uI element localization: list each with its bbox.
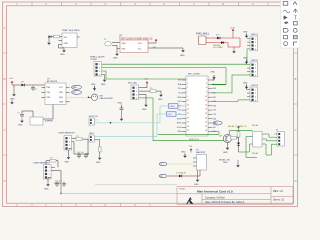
green wire data down — [139, 98, 224, 141]
wire — [61, 193, 177, 195]
svg-text:GND: GND — [223, 162, 228, 164]
svg-text:5: 5 — [187, 87, 188, 89]
relay K1 body — [253, 132, 263, 148]
green wires to output connector — [239, 134, 275, 158]
capacitor Cb — [84, 153, 88, 158]
svg-text:GPIO1: GPIO1 — [251, 34, 258, 36]
svg-text:VO-: VO- — [138, 49, 142, 51]
ground — [181, 48, 185, 52]
svg-text:22: 22 — [205, 122, 207, 124]
svg-text:12: 12 — [205, 100, 207, 102]
junction node — [87, 153, 88, 154]
junction node — [110, 122, 112, 124]
svg-text:2n2 2n2: 2n2 2n2 — [77, 152, 84, 154]
svg-text:RELAY: RELAY — [252, 152, 259, 155]
wire under IC — [58, 45, 60, 49]
svg-text:GND: GND — [96, 162, 101, 164]
svg-text:B: B — [4, 77, 6, 81]
svg-text:GND: GND — [180, 55, 185, 57]
power flag +12V — [232, 29, 235, 33]
svg-text:26: 26 — [205, 130, 207, 132]
svg-text:LIGHTSENSOR?: LIGHTSENSOR? — [33, 162, 51, 164]
header J6 — [131, 85, 139, 100]
collector wire to relay — [228, 131, 230, 135]
LED D — [48, 35, 51, 38]
svg-text:GND: GND — [181, 151, 186, 153]
svg-text:LIGHTSENSOR?: LIGHTSENSOR? — [58, 133, 76, 135]
gnd pin4 — [102, 73, 105, 75]
capacitor Cd — [62, 182, 66, 187]
+5V flag — [11, 81, 14, 85]
svg-text:GND: GND — [142, 109, 147, 111]
wire down from U3 — [52, 105, 54, 118]
svg-text:PB2: PB2 — [47, 97, 51, 99]
ground — [10, 100, 14, 104]
transistor Q1 — [223, 134, 231, 142]
wire with diode — [168, 175, 179, 177]
ground — [46, 182, 50, 186]
svg-text:24: 24 — [205, 126, 207, 128]
diode D3 — [217, 37, 220, 40]
svg-text:+12V: +12V — [230, 28, 236, 30]
svg-text:RPI_CONN: RPI_CONN — [188, 74, 200, 76]
net label box 2 — [167, 112, 177, 116]
ground — [20, 118, 24, 122]
svg-text:RELAY: RELAY — [252, 124, 259, 127]
svg-text:+5V: +5V — [9, 78, 13, 80]
svg-text:SCL: SCL — [73, 92, 77, 94]
pin stub wires — [247, 39, 250, 62]
+5V flag — [237, 126, 240, 130]
long wire to title area — [60, 183, 62, 194]
pin stubs — [193, 158, 197, 166]
svg-text:PB0: PB0 — [47, 87, 51, 89]
red wires — [206, 33, 240, 47]
svg-text:SCL1: SCL1 — [168, 114, 174, 116]
svg-text:LED?: LED? — [89, 133, 95, 135]
svg-text:VIN-: VIN- — [122, 49, 126, 51]
wire J1 to U1 — [112, 42, 120, 44]
gnd flag right — [156, 90, 161, 92]
connector LED body — [89, 135, 94, 142]
wire down — [13, 85, 15, 92]
jumper JP1 body — [30, 117, 43, 125]
header J4 — [250, 87, 258, 102]
wire from node — [89, 96, 92, 98]
svg-text:10: 10 — [205, 96, 207, 98]
svg-text:PB1: PB1 — [47, 92, 51, 94]
diode D4 lower — [221, 41, 224, 44]
wires — [46, 161, 61, 183]
svg-text:RELAY_NO: RELAY_NO — [219, 158, 230, 161]
border zone numerals — [4, 2, 297, 207]
svg-text:GND: GND — [118, 102, 123, 104]
svg-text:GND: GND — [44, 189, 49, 191]
svg-text:DO-214AC: DO-214AC — [213, 46, 223, 49]
svg-text:GND: GND — [243, 32, 248, 34]
stub wire — [94, 119, 97, 121]
base resistor R7 — [231, 137, 237, 140]
svg-text:GND: GND — [194, 184, 199, 186]
svg-text:Date: 2019-05-15 Drawn By:: Date: 2019-05-15 Drawn By: GaTech — [205, 201, 245, 204]
pin names outside — [177, 80, 182, 134]
net flag oval 2 — [72, 90, 82, 94]
ground — [98, 156, 102, 160]
junction node — [88, 97, 90, 99]
svg-text:MAX3232: MAX3232 — [196, 151, 206, 154]
capacitor C1 — [31, 86, 35, 91]
sheet inner border — [7, 6, 294, 203]
company logo — [186, 197, 193, 204]
svg-text:GND: GND — [113, 58, 118, 60]
svg-text:IO22: IO22 — [178, 110, 182, 112]
resistor R2 — [150, 90, 156, 93]
svg-text:+5V: +5V — [144, 79, 148, 81]
svg-text:Sheet: 1/1: Sheet: 1/1 — [273, 198, 285, 201]
svg-text:2: 2 — [206, 79, 207, 81]
svg-text:CE0: CE0 — [213, 127, 216, 129]
ground — [47, 41, 51, 45]
pin numbers left — [187, 79, 189, 133]
svg-text:Mini Universal Card v1.5: Mini Universal Card v1.5 — [197, 189, 233, 193]
svg-text:GND: GND — [64, 43, 69, 45]
svg-text:PWR? HLK-PM01: PWR? HLK-PM01 — [62, 30, 80, 32]
connector CN1 body — [186, 76, 208, 136]
resistor R8 vertical — [98, 147, 101, 152]
header J7 — [64, 136, 72, 151]
svg-text:D: D — [4, 179, 6, 183]
svg-text:15: 15 — [187, 109, 189, 111]
buzzer body — [91, 94, 97, 100]
svg-text:RJ45_WALL: RJ45_WALL — [196, 32, 210, 35]
+5V branch — [139, 87, 147, 89]
svg-text:4: 4 — [206, 83, 207, 85]
IC U3 body — [45, 83, 66, 105]
ground — [68, 150, 70, 155]
svg-text:GND: GND — [101, 84, 106, 86]
svg-text:GND: GND — [18, 125, 23, 127]
+5V flag — [190, 148, 193, 152]
gnd below — [139, 94, 146, 96]
svg-text:7: 7 — [187, 92, 188, 94]
svg-text:GND: GND — [243, 58, 248, 60]
IC PS1 body — [62, 33, 77, 48]
svg-text:CONN: CONN — [90, 59, 97, 61]
junction node — [60, 193, 61, 194]
svg-text:D: D — [295, 179, 297, 183]
svg-text:BUTTON: BUTTON — [89, 116, 98, 118]
svg-text:GND: GND — [243, 83, 248, 85]
wire from MCU — [52, 117, 54, 119]
svg-text:11: 11 — [187, 100, 189, 102]
+5V output — [148, 42, 156, 44]
svg-text:REV: 1.0: REV: 1.0 — [273, 190, 284, 193]
IC U5 body — [197, 155, 207, 171]
svg-text:D? 1N4148: D? 1N4148 — [176, 172, 186, 174]
net flag oval right — [213, 121, 222, 125]
connector J1 oval — [105, 42, 111, 47]
ground — [62, 48, 66, 52]
svg-text:SMALL_AUTH: SMALL_AUTH — [90, 56, 105, 59]
green wires out right — [102, 64, 247, 85]
green wires right side — [158, 75, 247, 134]
svg-text:8: 8 — [206, 92, 207, 94]
pin stubs — [250, 134, 266, 144]
svg-text:9: 9 — [187, 96, 188, 98]
ground below — [197, 170, 199, 178]
wire down to ground — [47, 36, 50, 38]
svg-text:IO24: IO24 — [213, 114, 217, 116]
svg-text:C: C — [295, 128, 297, 132]
header J2 — [250, 36, 258, 51]
cyan wires to CN1 — [94, 106, 186, 137]
wire — [51, 36, 54, 38]
pale wire — [168, 163, 193, 165]
svg-text:20: 20 — [205, 117, 207, 119]
wire down chain — [94, 139, 99, 141]
diode D5 vertical — [237, 143, 240, 146]
svg-text:GND: GND — [59, 102, 64, 104]
svg-text:2n2 2n2: 2n2 2n2 — [55, 180, 62, 182]
svg-text:GND: GND — [65, 162, 70, 164]
svg-text:C: C — [4, 128, 6, 132]
wires — [69, 138, 89, 154]
svg-text:IO23: IO23 — [213, 110, 217, 112]
capacitor C2 — [20, 113, 24, 118]
svg-text:MOSI: MOSI — [177, 118, 182, 120]
svg-text:23: 23 — [187, 126, 189, 128]
svg-text:IO4: IO4 — [178, 93, 181, 95]
wire — [112, 44, 117, 46]
pin stub wires — [247, 90, 250, 100]
svg-text:GND: GND — [223, 152, 228, 154]
svg-text:SMD-BUZZER: SMD-BUZZER — [100, 98, 114, 100]
svg-text:GPIO2: GPIO2 — [251, 60, 258, 62]
ground — [12, 92, 16, 96]
svg-text:T: T — [294, 15, 297, 21]
svg-text:HDR-2X13: HDR-2X13 — [189, 139, 200, 141]
svg-text:1: 1 — [187, 79, 188, 81]
net flag oval 1 — [72, 85, 82, 89]
wire faint upper — [95, 184, 177, 186]
wire — [21, 111, 23, 113]
svg-text:GND: GND — [211, 72, 216, 74]
header J3 — [250, 62, 258, 77]
annotation toolbar palette top-right — [281, 0, 301, 48]
sheet outer border — [3, 2, 298, 207]
svg-text:14: 14 — [205, 104, 207, 106]
svg-text:6: 6 — [206, 87, 207, 89]
svg-text:WS_LED: WS_LED — [128, 82, 137, 84]
svg-text:3V3: 3V3 — [178, 80, 181, 82]
svg-text:PB4: PB4 — [59, 97, 63, 99]
svg-text:A: A — [4, 26, 6, 30]
header J8 — [44, 165, 52, 180]
svg-text:17: 17 — [187, 113, 189, 115]
diode D4 — [179, 175, 182, 178]
net flag oval RX — [159, 174, 167, 178]
resistor R6 vertical — [237, 132, 240, 138]
svg-text:Company: GaTech: Company: GaTech — [205, 196, 225, 199]
svg-text:VCC: VCC — [59, 87, 64, 89]
diode D1 — [22, 84, 25, 87]
svg-text:19: 19 — [187, 117, 189, 119]
border zone tick marks — [3, 2, 298, 207]
svg-text:25: 25 — [187, 130, 189, 132]
ground — [233, 47, 235, 49]
svg-text:GND: GND — [158, 99, 163, 101]
svg-text:13: 13 — [187, 104, 189, 106]
connector RJ45 body — [199, 36, 207, 45]
connector BUTTON body — [89, 118, 94, 125]
title block — [177, 187, 293, 205]
ground 2 — [237, 160, 239, 163]
IC U2 body — [120, 40, 148, 53]
wire dark red — [12, 84, 45, 86]
svg-text:TITLE:: TITLE: — [179, 189, 186, 191]
svg-text:JUMPER: JUMPER — [45, 121, 54, 123]
svg-text:18: 18 — [205, 113, 207, 115]
wire to gnd flag — [148, 47, 183, 49]
svg-text:CE0: CE0 — [214, 123, 218, 125]
svg-text:PB3: PB3 — [59, 92, 63, 94]
header J5 — [94, 62, 102, 77]
gnd flag top right — [212, 79, 214, 81]
svg-text:GND: GND — [60, 54, 65, 56]
pin stubs PS1 — [59, 37, 80, 45]
svg-text:16: 16 — [205, 109, 207, 111]
svg-text:GND: GND — [10, 99, 15, 101]
svg-text:IO17: IO17 — [178, 101, 182, 103]
capacitor Ca — [77, 153, 81, 158]
net label box 1 — [169, 104, 179, 108]
emitter to ground — [227, 143, 229, 146]
pin numbers right — [205, 79, 207, 133]
svg-text:3: 3 — [187, 83, 188, 85]
capacitor Cc — [55, 182, 59, 187]
left pin stubs — [182, 80, 213, 132]
wire buzzer net (pale yellow) — [66, 96, 89, 98]
svg-text:GPIO3: GPIO3 — [251, 85, 258, 87]
svg-text:SCL: SCL — [178, 88, 181, 90]
pin stub wires — [247, 65, 250, 75]
pin stubs — [42, 87, 70, 102]
svg-text:SDA1: SDA1 — [170, 105, 176, 108]
resistor R fuse — [54, 35, 60, 38]
gnd below U2 — [116, 48, 118, 51]
svg-text:GND: GND — [91, 84, 96, 86]
svg-text:B: B — [295, 77, 297, 81]
net flag oval TX — [159, 162, 167, 166]
svg-text:21: 21 — [187, 122, 189, 124]
